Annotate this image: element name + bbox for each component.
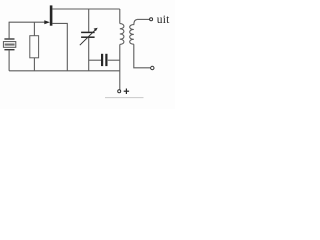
inductor: transformer primary winding [120, 24, 124, 45]
wire: left vertical from corner down to crystal [8, 22, 10, 38]
variable capacitor branch: top lead [88, 9, 90, 32]
decorative faint rule bottom [105, 97, 144, 99]
transistor base bar [50, 5, 53, 25]
inductor: transformer secondary winding with top lead arc [130, 19, 138, 44]
resistor [30, 22, 39, 71]
wire: right branch vertical (top corner down to primary coil) [119, 9, 121, 24]
wire: top-left horizontal (emitter wire from left corner to arrow) [9, 21, 45, 23]
terminal: plus supply circle [118, 90, 121, 93]
terminal: output circle (uit) [150, 18, 153, 21]
variable capacitor [80, 28, 98, 71]
wire: secondary top lead to output terminal [137, 18, 149, 20]
terminal: lower output circle [151, 66, 154, 69]
svg-text:uit: uit [157, 14, 170, 26]
capacitor (fixed, coupling) [89, 54, 120, 66]
transistor (old point-contact symbol): emitter arrow [44, 20, 50, 24]
wire: bottom horizontal wire [9, 70, 120, 72]
label: plus sign [124, 89, 129, 95]
wire: secondary bottom lead down then right to terminal [134, 44, 151, 68]
wire: collector wire from bar, right then down to bottom wire [52, 23, 67, 70]
wire: right branch vertical down to plus terminal [119, 44, 121, 89]
wire: base/top wire from bar to right branch [52, 8, 119, 10]
crystal (quartz) [3, 39, 15, 71]
